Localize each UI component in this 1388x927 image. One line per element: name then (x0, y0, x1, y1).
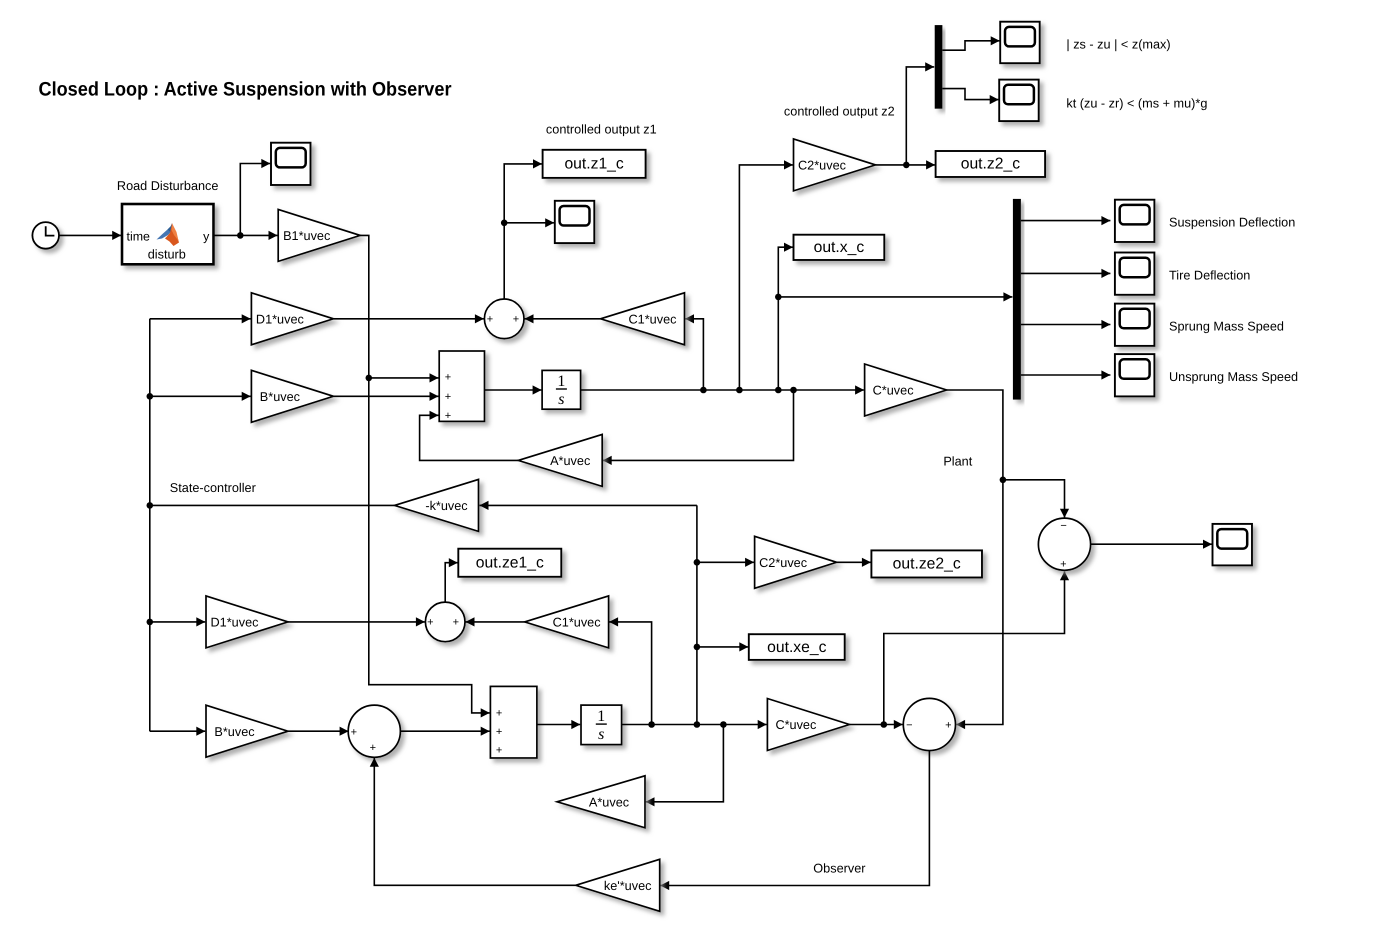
wire y to plant error sum minus (1003, 480, 1069, 518)
svg-text:B*uvec: B*uvec (260, 390, 301, 404)
svg-text:Sprung Mass Speed: Sprung Mass Speed (1169, 319, 1284, 333)
wire C*uvec plant output to observer error sum (947, 390, 1003, 729)
annotation Sprung Mass Speed (1169, 319, 1284, 333)
svg-text:Observer: Observer (813, 861, 866, 875)
gain C1*uvec plant (601, 293, 685, 345)
annotation controlled output z2 (784, 104, 895, 118)
svg-text:B1*uvec: B1*uvec (283, 229, 331, 243)
annotation Tire Deflection (1169, 268, 1250, 282)
svg-text:-k*uvec: -k*uvec (425, 499, 468, 513)
svg-text:+: + (496, 726, 502, 738)
gain A*uvec plant (518, 434, 602, 486)
wire observer sum rect to integrator (537, 720, 580, 729)
svg-text:| zs - zu | < z(max): | zs - zu | < z(max) (1066, 37, 1170, 51)
gain D1*uvec plant (251, 293, 333, 345)
annotation State-controller (170, 481, 257, 495)
svg-text:+: + (496, 708, 502, 720)
svg-text:D1*uvec: D1*uvec (256, 312, 305, 326)
junction xe to C1*uvec obs (648, 721, 655, 728)
wire A*uvec to plant sum rect input 3 (420, 411, 519, 461)
out block out.z1_c (543, 150, 646, 178)
wire disturb y to gain B1*uvec (214, 231, 278, 240)
Road Disturbance subsystem block (122, 204, 214, 264)
svg-text:C*uvec: C*uvec (775, 718, 817, 732)
svg-text:Closed Loop : Active Suspensio: Closed Loop : Active Suspension with Obs… (39, 79, 452, 101)
svg-text:+: + (487, 313, 493, 325)
wire xe to out.xe_c (697, 642, 748, 651)
junction x riser to big mux (775, 294, 782, 301)
scope constraint kt (999, 80, 1038, 122)
gain C*uvec plant (865, 364, 947, 416)
svg-text:out.ze1_c: out.ze1_c (476, 555, 544, 572)
svg-text:D1*uvec: D1*uvec (211, 616, 260, 630)
wire C*uvec obs to error sum (849, 720, 902, 729)
junction z1 to scope (501, 220, 508, 227)
sum observer error (903, 698, 955, 750)
wire demux to scope zs-zu (942, 36, 999, 50)
annotation title (39, 79, 452, 101)
scope Sprung Mass Speed (1115, 304, 1155, 346)
annotation Road Disturbance label (117, 179, 219, 193)
junction B1 bus to plant sum rect (366, 375, 373, 382)
svg-text:s: s (558, 391, 564, 408)
svg-text:C1*uvec: C1*uvec (629, 312, 678, 326)
svg-text:1: 1 (557, 373, 565, 390)
svg-text:out.z1_c: out.z1_c (564, 156, 623, 173)
junction y to plant error sum (1000, 477, 1007, 484)
svg-text:C2*uvec: C2*uvec (798, 159, 847, 173)
junction ye branch (881, 721, 888, 728)
svg-text:+: + (496, 745, 502, 757)
svg-text:C*uvec: C*uvec (873, 384, 915, 398)
svg-text:+: + (445, 410, 451, 422)
gain B*uvec observer (206, 705, 288, 757)
wire C2*uvec to out.z2_c (876, 160, 936, 169)
wire bus to gain D1*uvec observer (150, 617, 206, 626)
junction x to C1*uvec (700, 387, 707, 394)
svg-text:s: s (598, 726, 604, 743)
scope Road Disturbance display (271, 143, 311, 185)
svg-text:1: 1 (597, 708, 605, 725)
out block out.xe_c (749, 634, 845, 660)
svg-text:−: − (906, 719, 912, 731)
wire junction up to scope (240, 159, 270, 236)
svg-text:y: y (203, 229, 210, 243)
wire junction to plant sum rect input 1 (369, 373, 439, 382)
svg-text:Plant: Plant (943, 454, 972, 468)
sum ze1 (425, 602, 465, 642)
wire mux to scope Suspension Deflection (1021, 216, 1111, 225)
wire xe to A*uvec obs input (646, 725, 724, 807)
svg-text:C1*uvec: C1*uvec (553, 616, 602, 630)
gain C1*uvec observer (525, 596, 609, 648)
wire integrator to C*uvec observer (state bus xe) (622, 720, 767, 729)
svg-text:+: + (513, 313, 519, 325)
annotation Observer (813, 861, 866, 875)
scope z1 display (555, 201, 595, 243)
svg-text:+: + (945, 720, 951, 732)
svg-text:out.x_c: out.x_c (814, 239, 865, 256)
out block out.x_c (794, 235, 885, 260)
wire x to C2*uvec top input (739, 160, 793, 390)
wire observer sum to sum rect input 2 (400, 727, 489, 736)
gain C2*uvec observer (755, 536, 837, 588)
wire B1*uvec to observer sum rect input 1 (360, 235, 490, 717)
svg-text:+: + (445, 391, 451, 403)
annotation controlled output z1 (546, 123, 657, 137)
junction z2 to demux (903, 162, 910, 169)
junction x to C2*uvec (736, 387, 743, 394)
wire xe to -k*uvec input (480, 501, 697, 510)
gain A*uvec observer (557, 776, 645, 828)
integrator observer 1/s (581, 705, 622, 745)
svg-text:time: time (127, 229, 151, 243)
demux z2 constraints (935, 25, 943, 109)
svg-text:out.z2_c: out.z2_c (961, 156, 1020, 173)
svg-text:controlled output z1: controlled output z1 (546, 123, 657, 137)
junction xe to -k riser (694, 721, 701, 728)
scope Unsprung Mass Speed (1115, 354, 1155, 396)
wire bus to gain B*uvec plant (150, 392, 251, 401)
wire xe to C2*uvec obs input (697, 558, 754, 567)
wire clock to Road Disturbance (59, 231, 121, 240)
svg-text:Road Disturbance: Road Disturbance (117, 179, 219, 193)
wire C1*uvec obs to sum ze1 (466, 617, 525, 626)
sum block plant state (439, 351, 484, 422)
wire observer error to ke'*uvec (660, 751, 929, 891)
svg-text:out.ze2_c: out.ze2_c (893, 556, 961, 573)
gain -k*uvec (395, 479, 479, 531)
wire x to A*uvec plant input (603, 390, 794, 465)
wire ye up to plant error sum (884, 571, 1069, 724)
scope Suspension Deflection (1115, 200, 1155, 242)
junction xe to A*uvec obs (720, 721, 727, 728)
out block out.ze2_c (871, 550, 982, 577)
wire -k*uvec output bus vertical (149, 319, 151, 731)
svg-text:B*uvec: B*uvec (214, 725, 255, 739)
wire xe riser to -k and C2 obs (696, 505, 698, 724)
out block out.ze1_c (458, 549, 561, 577)
wire xe to C1*uvec obs input (609, 617, 652, 724)
svg-text:A*uvec: A*uvec (589, 795, 630, 809)
svg-text:controlled output z2: controlled output z2 (784, 104, 895, 118)
sum z1 (484, 299, 524, 339)
wire B*uvec obs to sum (288, 727, 349, 736)
wire D1*uvec obs to sum ze1 (288, 617, 425, 626)
annotation Suspension Deflection (1169, 216, 1295, 230)
scope estimation error (1213, 524, 1253, 566)
svg-text:+: + (453, 617, 459, 629)
gain B*uvec plant (251, 370, 333, 422)
junction x to out.x_c and mux (775, 387, 782, 394)
sum block observer state (490, 686, 537, 758)
wire C2*uvec obs to out.ze2_c (837, 558, 871, 567)
integrator plant 1/s (542, 370, 581, 409)
svg-text:kt (zu - zr) < (ms + mu)*g: kt (zu - zr) < (ms + mu)*g (1066, 97, 1207, 111)
wire x to out.x_c (778, 243, 793, 390)
svg-text:Tire Deflection: Tire Deflection (1169, 268, 1250, 282)
wire plant sum rect to integrator (485, 385, 542, 394)
gain C*uvec observer (767, 699, 849, 751)
gain C2*uvec top (794, 139, 876, 191)
wire z2 up to demux (906, 62, 934, 165)
svg-text:+: + (370, 742, 376, 754)
scope constraint zs-zu (1000, 22, 1039, 64)
annotation constraint 2 (1066, 97, 1207, 111)
annotation Unsprung Mass Speed (1169, 370, 1298, 384)
junction x to A*uvec (790, 387, 797, 394)
sum observer input (348, 705, 400, 757)
wire junction to scope z1 (504, 218, 554, 227)
svg-text:State-controller: State-controller (170, 481, 257, 495)
wire estimation error to scope (1091, 540, 1212, 549)
svg-text:C2*uvec: C2*uvec (759, 556, 808, 570)
wire C1*uvec to sum z1 (525, 314, 601, 323)
mux plant states (1013, 199, 1021, 400)
svg-text:−: − (1060, 520, 1066, 532)
junction disturb output (237, 232, 244, 239)
wire -k*uvec output to bus (150, 504, 395, 506)
wire demux to scope kt (942, 89, 998, 105)
svg-text:A*uvec: A*uvec (550, 454, 591, 468)
out block out.z2_c (936, 151, 1046, 177)
svg-text:Suspension Deflection: Suspension Deflection (1169, 216, 1295, 230)
annotation Plant (943, 454, 972, 468)
wire B*uvec to plant sum rect input 2 (333, 392, 438, 401)
wire x to C1*uvec plant input (685, 314, 703, 390)
svg-text:+: + (1060, 558, 1066, 570)
gain D1*uvec observer (206, 596, 288, 648)
wire mux to scope Sprung Mass Speed (1021, 320, 1111, 329)
junction bus at -k*uvec output (147, 502, 154, 509)
wire x to big mux (778, 292, 1012, 301)
wire integrator to C*uvec plant (state bus x) (581, 385, 865, 394)
svg-text:disturb: disturb (148, 247, 186, 261)
scope Tire Deflection (1115, 253, 1155, 295)
junction bus to B*uvec plant (147, 393, 154, 400)
wire mux to scope Unsprung Mass Speed (1021, 370, 1111, 379)
gain ke'*uvec (576, 859, 660, 911)
wire bus to gain D1*uvec plant (150, 314, 251, 323)
svg-text:Unsprung Mass Speed: Unsprung Mass Speed (1169, 370, 1298, 384)
wire sum z1 to out.z1_c (504, 159, 542, 299)
junction bus to D1*uvec observer (147, 619, 154, 626)
junction xe riser to C2*uvec obs (694, 559, 701, 566)
wire ke'*uvec to observer sum (370, 758, 576, 886)
svg-text:ke'*uvec: ke'*uvec (604, 879, 652, 893)
svg-text:+: + (445, 371, 451, 383)
junction xe riser to out.xe_c (694, 644, 701, 651)
wire bus to gain B*uvec observer (150, 727, 206, 736)
svg-text:out.xe_c: out.xe_c (767, 639, 826, 656)
annotation constraint 1 (1066, 37, 1170, 51)
svg-text:+: + (427, 617, 433, 629)
sum estimation error (1038, 518, 1090, 570)
wire mux to scope Tire Deflection (1021, 269, 1111, 278)
clock source block (32, 222, 59, 249)
wire sum ze1 to out.ze1_c (445, 558, 458, 602)
gain B1*uvec (278, 209, 360, 261)
wire D1*uvec to sum z1 (333, 314, 484, 323)
svg-text:+: + (351, 727, 357, 739)
